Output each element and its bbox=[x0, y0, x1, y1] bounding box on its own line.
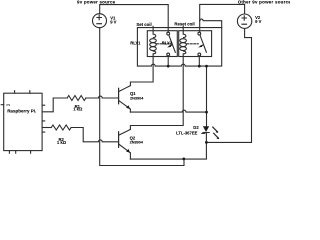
wire V2 tee down to relay2 switch common bbox=[199, 21, 201, 33]
relay1 switch bottom stub bbox=[167, 56, 169, 66]
svg-text:P1: P1 bbox=[7, 103, 11, 107]
relay2 actuation dashed line bbox=[187, 43, 199, 45]
voltage source V2 bbox=[237, 14, 251, 28]
junction dot relay2 switch to rail bbox=[198, 65, 201, 68]
svg-text:Raspberry Pi.: Raspberry Pi. bbox=[7, 108, 36, 113]
transistor Q2 bbox=[118, 132, 120, 148]
Q2 emitter arrow bbox=[126, 149, 130, 153]
pi left pin bbox=[1, 104, 4, 106]
arrowheads and dots bbox=[126, 45, 219, 161]
relay1 actuation arrow bbox=[167, 45, 171, 48]
svg-text:LTL-367EE: LTL-367EE bbox=[176, 130, 198, 135]
relay RLY2 box bbox=[179, 31, 212, 57]
svg-text:Other 9v power source: Other 9v power source bbox=[238, 0, 290, 5]
Q1 emitter arrow bbox=[126, 105, 130, 109]
svg-text:9 V: 9 V bbox=[110, 20, 116, 25]
junction dot ground node bbox=[182, 158, 185, 161]
svg-text:2N3904: 2N3904 bbox=[130, 96, 144, 100]
wire coil1 to Q1 collector bbox=[130, 56, 153, 85]
wire pi gpio to R1 bbox=[42, 98, 67, 112]
relay2 switch bbox=[198, 32, 201, 35]
wire coil2 down to Q2 collector line bbox=[130, 56, 183, 129]
raspberry pi box bbox=[4, 93, 42, 150]
wire Q1 emitter to LED anode line (hop over coil2 wire) bbox=[130, 110, 206, 112]
wire R1 to Q1 base (hop over V1 wire) bbox=[86, 96, 119, 98]
wire V2 minus down left to LED cathode node bbox=[206, 29, 251, 143]
resistor R1 bbox=[67, 96, 86, 101]
svg-text:9v power source: 9v power source bbox=[77, 0, 116, 5]
junction dot rail to LED bbox=[205, 65, 208, 68]
junction dot Q1 emitter / LED wire bbox=[205, 111, 208, 114]
wire V2 top rail bbox=[200, 4, 245, 20]
svg-text:Reset coil: Reset coil bbox=[174, 22, 194, 27]
wire V1 top to relay1 switch common bbox=[100, 5, 169, 33]
wire R2 to Q2 base (hop over V1 wire) bbox=[71, 128, 119, 142]
svg-text:1 kΩ: 1 kΩ bbox=[57, 140, 67, 145]
relay RLY1 box bbox=[147, 31, 177, 57]
svg-text:9 V: 9 V bbox=[255, 19, 261, 24]
wire relay rail to LED anode bbox=[206, 66, 208, 126]
wire ground node to LED cathode corner bbox=[184, 133, 207, 159]
pi right pins bbox=[42, 105, 45, 132]
wire Q2 emitter to ground node bbox=[130, 158, 183, 160]
LED D2 bbox=[203, 126, 209, 132]
junction dot V2 minus / LED cathode bbox=[205, 141, 208, 144]
LED arrow tips bbox=[216, 131, 219, 134]
svg-text:RLY2: RLY2 bbox=[162, 40, 173, 45]
relay module frame (outer box, bottom edge with hops) bbox=[137, 28, 221, 67]
relay2 switch bottom stub bbox=[198, 56, 200, 66]
set coil (RLY1 coil) bbox=[153, 26, 156, 37]
wire pi gpio to R2 bbox=[42, 127, 51, 129]
pi top pins bbox=[15, 91, 30, 94]
relay1 switch bbox=[167, 32, 170, 35]
svg-text:D2: D2 bbox=[193, 125, 199, 130]
relay1 actuation dashed line bbox=[156, 43, 171, 45]
voltage source V1 bbox=[93, 14, 107, 28]
relay2 actuation arrow bbox=[198, 45, 202, 48]
svg-text:RLY1: RLY1 bbox=[130, 40, 141, 45]
svg-text:2N3904: 2N3904 bbox=[130, 141, 144, 145]
wire V2 tee right to relay frame corner (with hop) bbox=[200, 19, 222, 28]
wire V1 minus down and along bottom bbox=[100, 28, 184, 166]
reset coil (RLY2 coil) bbox=[183, 26, 186, 37]
svg-text:Set coil: Set coil bbox=[136, 22, 151, 27]
transistor Q1 bbox=[118, 88, 120, 104]
leader line LTL label to LED bbox=[201, 133, 205, 135]
LED light arrows bbox=[213, 127, 218, 132]
junction dot relay1 switch to rail bbox=[167, 65, 170, 68]
svg-text:1 kΩ: 1 kΩ bbox=[73, 107, 83, 112]
resistor R2 bbox=[51, 125, 71, 130]
pi bottom pins bbox=[9, 151, 30, 154]
